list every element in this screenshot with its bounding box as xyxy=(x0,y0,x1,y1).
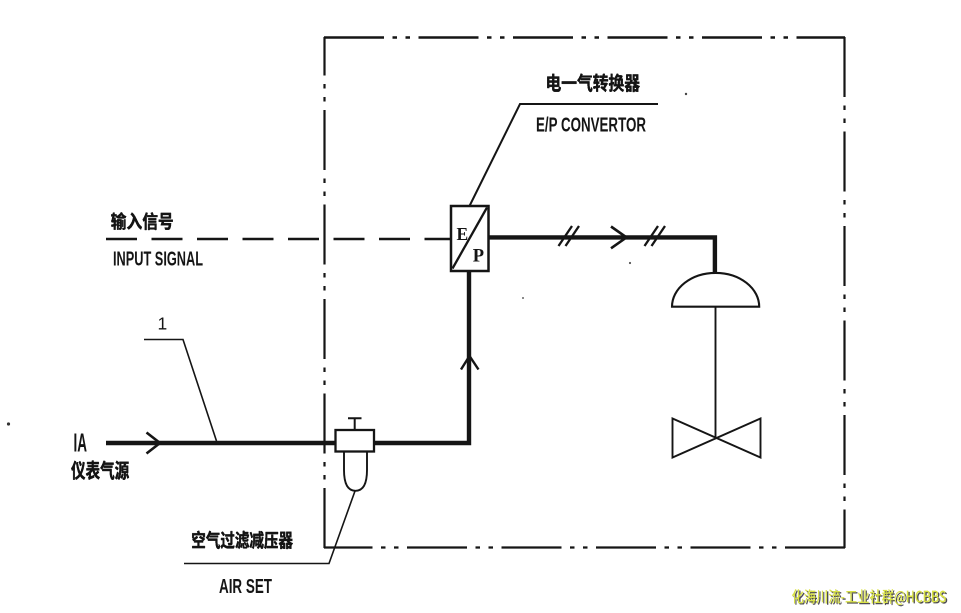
flow arrow on output line xyxy=(611,227,627,249)
pneumatic output line from E/P to valve (thick) xyxy=(489,237,715,274)
scan speck 3 xyxy=(522,297,524,299)
label: 输入信号 xyxy=(111,212,173,230)
air set filter-regulator body xyxy=(336,418,375,491)
control valve actuator dome xyxy=(672,273,759,307)
instrument air supply pipeline (thick) xyxy=(106,271,469,445)
watermark: 化海川流-工业社群@HCBBS xyxy=(792,589,946,605)
svg-text:P: P xyxy=(473,247,484,267)
enclosure border left xyxy=(323,37,325,548)
enclosure border top (phantom dash-dot-dot line) xyxy=(324,36,845,38)
svg-text:IA: IA xyxy=(74,428,88,458)
E/P converter box U1 xyxy=(451,206,489,271)
watermark shadow xyxy=(793,590,947,606)
svg-text:E: E xyxy=(457,224,469,244)
svg-text:INPUT SIGNAL: INPUT SIGNAL xyxy=(113,248,203,271)
control valve body (bowtie) xyxy=(673,419,761,458)
control valve stem xyxy=(715,307,717,438)
arrow on air supply line xyxy=(147,433,161,454)
scan speck 1 xyxy=(7,422,10,425)
label: 空气过滤减压器 xyxy=(192,531,293,549)
input signal dashed line xyxy=(106,238,450,240)
leader line for item 1 xyxy=(144,340,217,442)
scan speck 2 xyxy=(629,262,631,264)
svg-text:1: 1 xyxy=(158,314,168,334)
double slash mark 2 xyxy=(645,226,666,246)
enclosure border bottom xyxy=(324,546,845,548)
label: 仪表气源 xyxy=(71,461,129,480)
svg-text:AIR SET: AIR SET xyxy=(219,575,272,598)
label leader line for E/P convertor (diagonal) xyxy=(470,104,659,206)
enclosure border right xyxy=(843,37,845,548)
air set leader line xyxy=(184,491,355,564)
label: 电一气转换器 xyxy=(547,74,640,93)
svg-text:E/P CONVERTOR: E/P CONVERTOR xyxy=(536,114,646,137)
up arrow on vertical air line xyxy=(461,356,479,370)
double slash mark 1 xyxy=(559,226,580,246)
scan speck 4 xyxy=(685,93,687,95)
